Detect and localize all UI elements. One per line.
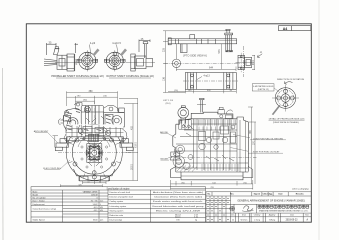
svg-text:JOINT FOR FUEL OIL INLET: JOINT FOR FUEL OIL INLET [252,152,280,154]
svg-text:4-M8 TAPPED HOLES: 4-M8 TAPPED HOLES [253,85,274,88]
side view interior verticals [194,119,246,172]
tapped holes boxed label [252,84,274,91]
svg-text:Output [Continuous rating]: Output [Continuous rating] [33,207,57,210]
svg-text:DIRECTION OF ROTATION: DIRECTION OF ROTATION [277,78,305,81]
svg-text:573: 573 [218,49,221,54]
svg-text:Forced lubrication with trocho: Forced lubrication with trochoid pump [153,205,204,208]
propeller shaft coupling side view [44,43,78,71]
svg-text:mm: mm [100,200,104,202]
rotation arrow [285,81,293,84]
side view upper-left manifold details [179,107,233,129]
svg-text:Lubricating system: Lubricating system [110,205,127,208]
svg-text:4-φ10.5: 4-φ10.5 [112,42,121,45]
svg-text:Date: Date [290,214,294,217]
main cells [231,203,312,205]
bracket below bar [181,44,188,53]
svg-text:A: A [259,50,262,54]
header dividers [211,192,213,196]
bolt on top [54,49,60,55]
output flange detail (top right of plan) [236,46,256,77]
svg-text:Fresh water cooling with heat: Fresh water cooling with heat exch. [153,200,204,203]
svg-text:618.5: 618.5 [136,141,138,147]
inner ring details [75,138,79,142]
svg-text:Starting system: Starting system [110,209,124,212]
right assembly (heat exchanger) [104,113,125,128]
scan edge line left [2,68,5,240]
side view breather [178,106,189,124]
fuel oil return label [233,135,286,140]
svg-text:Displacement: Displacement [33,203,46,206]
svg-text:T.Wang: T.Wang [269,219,275,221]
svg-text:LIFT 1 1/4: LIFT 1 1/4 [163,100,174,102]
svg-text:380: 380 [89,90,94,93]
svg-text:82 × 86: 82 × 86 [91,199,99,202]
svg-text:No. of Cylinder: No. of Cylinder [33,197,47,199]
svg-text:4-φ13: 4-φ13 [203,75,210,78]
keyway wedge pointer [272,105,281,115]
top-right format box [279,26,311,31]
revision grid [230,192,232,222]
svg-text:kW: kW [100,207,103,209]
bottom row labels [231,214,309,217]
svg-text:Clockwise (View from stern sid: Clockwise (View from stern side) [154,196,203,199]
side view lower-left diagonal hatch [177,166,197,172]
svg-text:(90): (90) [83,100,87,102]
svg-text:No.: No. [207,194,211,196]
svg-text:W.Chen: W.Chen [241,219,248,221]
svg-text:Stable Speed: Stable Speed [33,219,45,222]
output shaft coupling side view [126,40,155,72]
side view engine body outline [171,112,253,180]
revision grid marks [207,198,229,219]
center hub [87,144,102,163]
detail view circle [272,85,299,112]
svg-text:Reduction ratio: Reduction ratio [110,214,124,217]
svg-text:GENERAL ARRANGEMENT OF ENGINE: GENERAL ARRANGEMENT OF ENGINE (YANMAR 3J… [237,199,304,202]
svg-text:Remarks: Remarks [296,194,304,196]
svg-text:Dry mass (kg): Dry mass (kg) [110,220,123,222]
front view alternator dark cluster [65,108,80,130]
svg-text:Astern: Astern [175,215,180,218]
svg-text:kW: kW [100,210,103,212]
right half rows [108,194,206,196]
svg-text:[PTO SIDE VIEW A]: [PTO SIDE VIEW A] [183,54,206,58]
title block [206,192,311,222]
engine plan rectangle [183,73,239,90]
svg-text:Drwn: Drwn [242,215,246,217]
svg-text:OUTPUT SHAFT COUPLING (SCALE 1: OUTPUT SHAFT COUPLING (SCALE 1/2) [106,75,154,78]
front view bottom dims [61,181,107,187]
svg-text:Size: Size [305,215,309,217]
oil filter circle on centerline [172,44,180,68]
gear case circles left [176,145,185,154]
side view cylinder-head fine hatch [195,120,238,172]
svg-text:L.Yang: L.Yang [254,219,260,221]
svg-text:(VIEW FROM FLYWHEEL): (VIEW FROM FLYWHEEL) [273,122,300,124]
svg-text:A4: A4 [283,27,288,31]
front view oil pan trapezoid [74,169,116,181]
front view: engine body [55,101,133,185]
sheet border [26,24,311,222]
top view: left vertical dimension line [163,31,227,93]
svg-text:4-φ9: 4-φ9 [90,42,96,45]
dim lines [47,43,57,45]
fuel oil inlet label [230,148,283,154]
svg-text:1.642: 1.642 [92,204,98,206]
body sides down to circle [66,134,68,142]
svg-text:2003-09-23: 2003-09-23 [286,220,298,222]
left mount [56,143,69,147]
svg-text:Cooling system: Cooling system [110,200,124,203]
front view ring radial details [68,143,121,178]
logo mark [230,206,254,212]
bottom row dividers [235,213,237,222]
svg-text:Electric starting 12V-1.4kW: Electric starting 12V-1.4kW [156,209,200,212]
header labels [207,193,303,196]
svg-text:(110): (110) [166,103,171,105]
bottom dim line of plan [168,89,236,93]
svg-text:App.: App. [268,193,273,196]
svg-text:DETAIL OF PROPELLER SIDE (1/2): DETAIL OF PROPELLER SIDE (1/2) [269,117,305,120]
dim 573 vertical [220,44,222,70]
A view arrow [257,54,262,58]
svg-text:(Unit scaling/qty): (Unit scaling/qty) [292,187,309,190]
svg-text:Chkd by: Chkd by [254,215,261,217]
small rect on top of bar [190,35,195,39]
top view: shaft bar [168,29,237,52]
side view bottom dimension lines [171,180,253,190]
svg-text:rpm: rpm [100,219,104,222]
left assembly (mixing elbow / alternator) [63,109,81,135]
side view crank centerline [168,157,251,159]
svg-text:136: 136 [162,76,165,81]
svg-text:Specification of engine: Specification of engine [106,188,130,191]
side view lifting eye [197,98,206,112]
oil filler cap [84,107,90,113]
exhaust elbow cluster top right [218,110,225,114]
svg-text:Direction of crank shaft: Direction of crank shaft [110,191,131,194]
svg-text:12SDM: 12SDM [91,194,98,196]
dim line 644 [176,67,236,72]
oil pan [181,172,243,180]
small left dim [53,136,59,148]
body over circle top [67,124,123,137]
front view upper body extra machinery detail [59,103,127,143]
svg-text:Direction of propeller shaft: Direction of propeller shaft [110,196,134,199]
svg-text:Anti-clockwise (View from ster: Anti-clockwise (View from stern side) [153,191,204,194]
svg-text:PROPELLER SHAFT COUPLING (SCAL: PROPELLER SHAFT COUPLING (SCALE 1/2) [51,75,103,78]
output coupling face view circle [104,45,127,72]
specification table [31,187,206,223]
svg-text:(20): (20) [174,90,178,92]
front view right dimension lines [108,99,138,181]
bottom feet [80,176,89,181]
front view top dimension lines [67,91,118,111]
company name line 1 (CJK-style glyph boxes) [258,205,309,208]
svg-text:225: 225 [162,47,165,52]
horizontal centerline [164,62,241,64]
vertical bolt [144,44,146,59]
svg-text:Bore × Stroke: Bore × Stroke [33,199,46,202]
right mount [120,143,133,147]
svg-text:(75): (75) [243,182,247,184]
side view interior horizontals and details [173,124,248,170]
centerlines [93,101,95,185]
dark block above hub [89,134,99,141]
scan edge line right [318,0,320,240]
svg-text:203.5: 203.5 [131,163,133,169]
svg-text:φ152: φ152 [253,59,255,65]
svg-text:(95): (95) [181,182,185,184]
svg-text:Appd by: Appd by [269,214,276,217]
svg-text:Date: Date [279,193,283,196]
svg-text:Rev.: Rev. [230,194,234,196]
flange stack right [226,35,228,52]
anti-vibration mount detail left [170,149,181,161]
svg-text:SHANGHAI SHENHE MARINE DIESEL: SHANGHAI SHENHE MARINE DIESEL ENGINE CO.… [259,209,309,212]
feet [171,167,182,178]
svg-text:YANMAR 3JH3E: YANMAR 3JH3E [83,190,99,193]
flange band across top of circle [67,136,124,138]
svg-text:L: L [100,204,101,206]
svg-text:3.16: 3.16 [194,216,198,218]
flywheel housing outer circle [66,124,122,180]
svg-text:644: 644 [209,67,214,70]
svg-text:190: 190 [176,220,179,222]
svg-text:kg: kg [195,220,197,222]
svg-text:Des.: Des. [231,215,235,217]
front view small texture strokes [69,128,110,147]
svg-text:Signed: Signed [254,194,261,196]
left half rows [31,192,108,194]
propeller coupling face view circle [77,45,100,72]
svg-text:Chkd: Chkd [263,194,269,196]
svg-text:JOINT FOR FUEL OIL RETURN: JOINT FOR FUEL OIL RETURN [253,138,283,140]
svg-text:Model: Model [33,194,39,196]
rocker cover [81,106,104,126]
front view hub hatch [87,141,102,166]
side view right dimension lines [248,107,257,184]
svg-text:(DEPTH 12): (DEPTH 12) [258,89,269,91]
